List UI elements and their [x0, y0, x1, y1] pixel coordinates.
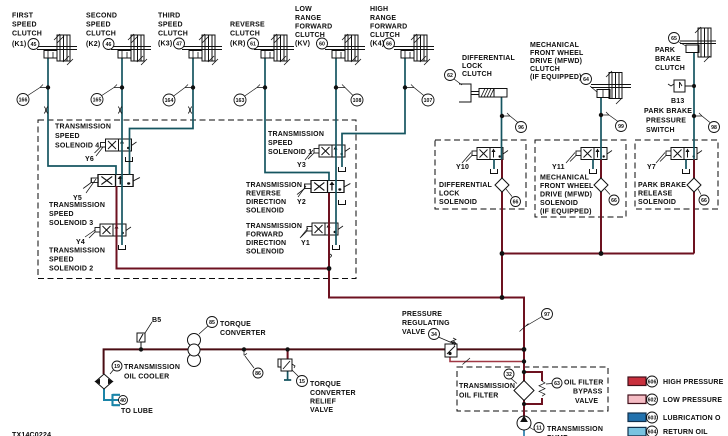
- svg-text:Y6: Y6: [85, 156, 94, 163]
- svg-text:LUBRICATION O: LUBRICATION O: [663, 415, 721, 422]
- svg-text:RELIEF: RELIEF: [310, 399, 337, 406]
- svg-text:Y11: Y11: [552, 164, 565, 171]
- svg-text:CLUTCH: CLUTCH: [12, 31, 42, 38]
- svg-text:63: 63: [554, 381, 560, 387]
- svg-text:CLUTCH: CLUTCH: [295, 32, 325, 39]
- svg-text:61: 61: [250, 42, 256, 48]
- svg-text:603: 603: [648, 416, 657, 422]
- svg-text:SOLENOID: SOLENOID: [246, 249, 284, 256]
- svg-text:SWITCH: SWITCH: [646, 127, 675, 134]
- svg-text:Y10: Y10: [456, 164, 469, 171]
- svg-text:98: 98: [711, 125, 717, 131]
- svg-text:CONVERTER: CONVERTER: [220, 330, 266, 337]
- svg-text:TRANSMISSION: TRANSMISSION: [55, 124, 111, 131]
- svg-text:FORWARD: FORWARD: [370, 24, 407, 31]
- svg-text:66: 66: [513, 200, 519, 206]
- svg-text:VALVE: VALVE: [575, 398, 598, 405]
- svg-text:SOLENOID 4: SOLENOID 4: [55, 143, 99, 150]
- svg-text:TRANSMISSION: TRANSMISSION: [547, 426, 603, 433]
- svg-text:606: 606: [648, 380, 657, 386]
- svg-text:REGULATING: REGULATING: [402, 320, 450, 327]
- svg-text:47: 47: [176, 42, 182, 48]
- svg-text:FRONT WHEEL: FRONT WHEEL: [540, 183, 594, 190]
- svg-text:FORWARD: FORWARD: [295, 24, 332, 31]
- svg-text:OIL FILTER: OIL FILTER: [459, 393, 498, 400]
- svg-text:Y5: Y5: [73, 195, 82, 202]
- svg-text:SPEED: SPEED: [49, 211, 74, 218]
- svg-text:FRONT WHEEL: FRONT WHEEL: [530, 50, 584, 57]
- svg-text:LOCK: LOCK: [462, 63, 483, 70]
- svg-text:Y2: Y2: [297, 199, 306, 206]
- svg-text:(IF EQUIPPED): (IF EQUIPPED): [530, 74, 582, 81]
- svg-text:SPEED: SPEED: [55, 133, 80, 140]
- svg-text:PARK BRAKE: PARK BRAKE: [644, 108, 692, 115]
- svg-text:PRESSURE: PRESSURE: [646, 118, 686, 125]
- svg-text:CLUTCH: CLUTCH: [158, 31, 188, 38]
- svg-text:SOLENOID 2: SOLENOID 2: [49, 266, 93, 273]
- svg-text:65: 65: [671, 36, 677, 42]
- svg-text:62: 62: [447, 73, 453, 79]
- svg-text:REVERSE: REVERSE: [230, 22, 265, 29]
- svg-text:604: 604: [648, 430, 657, 436]
- svg-text:MECHANICAL: MECHANICAL: [530, 42, 580, 49]
- svg-text:REVERSE: REVERSE: [246, 191, 281, 198]
- svg-text:LOW PRESSURE: LOW PRESSURE: [663, 397, 722, 404]
- svg-text:99: 99: [618, 124, 624, 130]
- svg-text:TORQUE: TORQUE: [220, 321, 251, 328]
- svg-text:SPEED: SPEED: [86, 22, 111, 29]
- svg-text:SOLENOID 1: SOLENOID 1: [268, 149, 312, 156]
- svg-text:VALVE: VALVE: [310, 407, 333, 414]
- svg-text:HIGH PRESSURE: HIGH PRESSURE: [663, 379, 724, 386]
- svg-text:DIRECTION: DIRECTION: [246, 199, 286, 206]
- svg-text:B5: B5: [152, 317, 161, 324]
- svg-text:TRANSMISSION: TRANSMISSION: [459, 383, 515, 390]
- svg-text:BRAKE: BRAKE: [655, 56, 681, 63]
- svg-text:(K3): (K3): [158, 41, 172, 48]
- svg-text:Y3: Y3: [297, 162, 306, 169]
- svg-text:LOCK: LOCK: [439, 191, 460, 198]
- svg-text:CLUTCH: CLUTCH: [462, 71, 492, 78]
- svg-text:HIGH: HIGH: [370, 6, 388, 13]
- svg-text:166: 166: [19, 98, 28, 104]
- svg-text:FIRST: FIRST: [12, 13, 34, 20]
- svg-text:SPEED: SPEED: [12, 22, 37, 29]
- svg-text:VALVE: VALVE: [402, 329, 425, 336]
- svg-text:SOLENOID: SOLENOID: [638, 199, 676, 206]
- svg-text:86: 86: [255, 371, 261, 377]
- svg-text:66: 66: [701, 198, 707, 204]
- svg-text:CLUTCH: CLUTCH: [530, 66, 560, 73]
- svg-text:RELEASE: RELEASE: [638, 191, 673, 198]
- svg-text:(K1): (K1): [12, 41, 26, 48]
- svg-text:602: 602: [648, 398, 657, 404]
- svg-text:CLUTCH: CLUTCH: [86, 31, 116, 38]
- svg-text:LOW: LOW: [295, 6, 312, 13]
- svg-text:164: 164: [165, 98, 174, 104]
- svg-text:(KV): (KV): [295, 41, 310, 48]
- svg-text:SOLENOID 3: SOLENOID 3: [49, 220, 93, 227]
- svg-text:BYPASS: BYPASS: [573, 389, 603, 396]
- svg-text:TX14C0224: TX14C0224: [12, 432, 51, 436]
- svg-text:CLUTCH: CLUTCH: [230, 31, 260, 38]
- svg-text:107: 107: [424, 98, 433, 104]
- svg-text:THIRD: THIRD: [158, 13, 180, 20]
- svg-text:TRANSMISSION: TRANSMISSION: [246, 182, 302, 189]
- svg-text:SPEED: SPEED: [158, 22, 183, 29]
- svg-text:CLUTCH: CLUTCH: [655, 65, 685, 72]
- svg-text:RANGE: RANGE: [370, 15, 396, 22]
- svg-text:19: 19: [114, 364, 120, 370]
- svg-text:DIFFERENTIAL: DIFFERENTIAL: [439, 182, 492, 189]
- svg-text:SOLENOID: SOLENOID: [439, 199, 477, 206]
- svg-text:SPEED: SPEED: [49, 257, 74, 264]
- svg-text:TRANSMISSION: TRANSMISSION: [246, 223, 302, 230]
- svg-text:CLUTCH: CLUTCH: [370, 32, 400, 39]
- svg-text:108: 108: [353, 98, 362, 104]
- svg-text:TO LUBE: TO LUBE: [121, 408, 153, 415]
- svg-text:45: 45: [31, 42, 37, 48]
- svg-text:SPEED: SPEED: [268, 140, 293, 147]
- svg-text:165: 165: [93, 98, 102, 104]
- svg-text:96: 96: [518, 125, 524, 131]
- svg-text:TRANSMISSION: TRANSMISSION: [124, 364, 180, 371]
- svg-text:PARK BRAKE: PARK BRAKE: [638, 182, 686, 189]
- svg-text:RETURN OIL: RETURN OIL: [663, 429, 708, 436]
- svg-text:PRESSURE: PRESSURE: [402, 311, 442, 318]
- svg-text:85: 85: [209, 320, 215, 326]
- svg-text:15: 15: [299, 379, 305, 385]
- svg-text:CONVERTER: CONVERTER: [310, 390, 356, 397]
- svg-text:Y7: Y7: [647, 164, 656, 171]
- svg-text:163: 163: [236, 98, 245, 104]
- svg-text:(IF EQUIPPED): (IF EQUIPPED): [540, 209, 592, 216]
- svg-text:DRIVE (MFWD): DRIVE (MFWD): [530, 58, 582, 65]
- svg-text:DRIVE (MFWD): DRIVE (MFWD): [540, 192, 592, 199]
- svg-text:FORWARD: FORWARD: [246, 232, 283, 239]
- svg-text:TRANSMISSION: TRANSMISSION: [49, 248, 105, 255]
- svg-text:SOLENOID: SOLENOID: [246, 208, 284, 215]
- svg-text:Y1: Y1: [301, 240, 310, 247]
- svg-text:Y4: Y4: [76, 239, 85, 246]
- svg-text:(K2): (K2): [86, 41, 100, 48]
- svg-text:32: 32: [506, 372, 512, 378]
- svg-text:64: 64: [583, 77, 589, 83]
- svg-text:OIL FILTER: OIL FILTER: [564, 380, 603, 387]
- svg-text:DIRECTION: DIRECTION: [246, 240, 286, 247]
- svg-text:(K4): (K4): [370, 41, 384, 48]
- svg-text:SECOND: SECOND: [86, 13, 117, 20]
- svg-text:TORQUE: TORQUE: [310, 381, 341, 388]
- svg-text:97: 97: [544, 312, 550, 318]
- svg-text:B13: B13: [671, 98, 684, 105]
- svg-text:SOLENOID: SOLENOID: [540, 200, 578, 207]
- svg-text:66: 66: [611, 198, 617, 204]
- svg-text:TRANSMISSION: TRANSMISSION: [49, 202, 105, 209]
- svg-text:60: 60: [319, 42, 325, 48]
- svg-text:11: 11: [536, 426, 542, 432]
- svg-text:OIL COOLER: OIL COOLER: [124, 374, 169, 381]
- svg-text:46: 46: [106, 42, 112, 48]
- svg-text:34: 34: [431, 332, 437, 338]
- svg-text:66: 66: [386, 42, 392, 48]
- svg-text:DIFFERENTIAL: DIFFERENTIAL: [462, 55, 515, 62]
- svg-text:RANGE: RANGE: [295, 15, 321, 22]
- svg-text:PARK: PARK: [655, 47, 675, 54]
- svg-text:MECHANICAL: MECHANICAL: [540, 175, 590, 182]
- svg-text:40: 40: [120, 398, 126, 404]
- svg-text:(KR): (KR): [230, 41, 246, 48]
- svg-text:TRANSMISSION: TRANSMISSION: [268, 131, 324, 138]
